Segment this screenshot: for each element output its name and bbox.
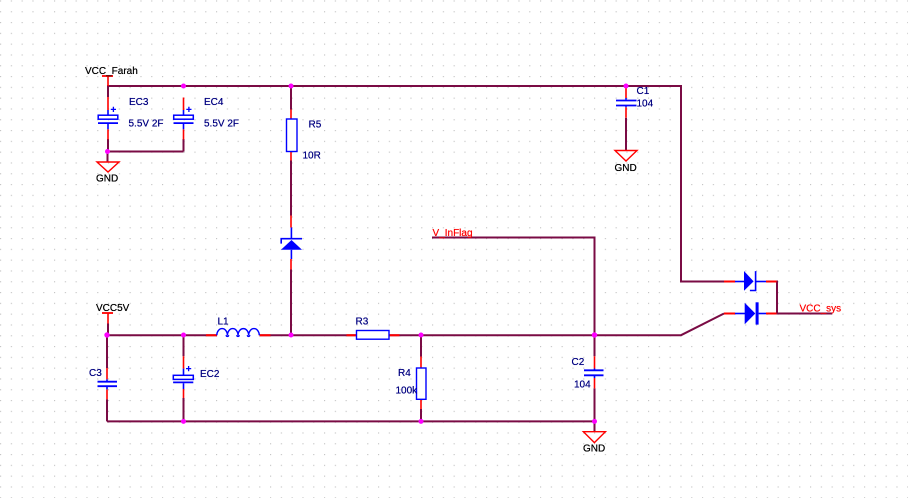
zener diode D1	[281, 228, 302, 260]
wire: EC2 column segments	[183, 335, 185, 421]
pin: zener D1 pins	[290, 216, 292, 270]
svg-text:5.5V 2F: 5.5V 2F	[204, 119, 239, 130]
ground symbol (C2)	[583, 432, 605, 455]
wire: middle net from L1 right to diagonal into bottom diode	[260, 314, 725, 336]
wire: V_InFlag net horizontal and down to middle net	[432, 238, 595, 357]
wire: C2 column segments and GND stub	[594, 388, 596, 431]
pin: L1 pins	[206, 334, 271, 336]
pin: EC2 pins	[183, 356, 185, 398]
junction (183.5,421) EC2 bottom	[181, 419, 186, 424]
svg-text:10R: 10R	[303, 151, 321, 162]
svg-text:104: 104	[574, 380, 591, 391]
power port VCC5V	[96, 303, 130, 314]
pin: top diode D2 pins	[724, 281, 777, 283]
pin: C2 pins	[594, 356, 596, 388]
inductor L1	[217, 329, 259, 337]
svg-text:C3: C3	[89, 368, 102, 379]
ground symbol (C1)	[615, 151, 638, 175]
pin: C1 pins	[625, 86, 627, 118]
capacitor C1	[616, 98, 637, 107]
svg-text:VCC_Farah: VCC_Farah	[85, 66, 138, 77]
power port VCC_Farah	[85, 66, 138, 77]
svg-text:104: 104	[637, 99, 654, 110]
junction (421,421) R4 bottom	[419, 419, 424, 424]
junction (183.5,86) EC4 top	[181, 84, 186, 89]
pin: R4 pins	[420, 357, 422, 410]
pin: C3 pins	[106, 368, 108, 399]
wire: C1 bottom to GND	[625, 118, 627, 151]
wire: VCC5V stub down to middle net	[107, 324, 109, 336]
svg-text:R4: R4	[398, 368, 411, 379]
svg-text:V_InFlag: V_InFlag	[433, 228, 473, 239]
wire: top diode output corner down to VCC_sys row	[776, 282, 779, 314]
ground symbol (EC3/EC4)	[96, 162, 119, 185]
capacitor EC3	[98, 107, 118, 130]
pin: EC4 pins	[183, 98, 185, 140]
wire: top net from VCC_Farah corner right to top-right corner, down to top diode row	[108, 86, 724, 282]
diode D2 (top right zener)	[735, 271, 766, 291]
capacitor EC4	[174, 107, 194, 130]
svg-text:GND: GND	[615, 163, 637, 174]
pin: VCC5V port pin	[107, 313, 109, 324]
diode D3 (bottom right)	[735, 302, 766, 324]
junction (107,334.5) VCC5V node	[104, 332, 109, 337]
junction (594.5,334.5) V_InFlag/C2 node	[592, 332, 597, 337]
svg-text:VCC5V: VCC5V	[96, 303, 130, 314]
resistor R4	[417, 368, 427, 399]
svg-text:EC4: EC4	[204, 97, 224, 108]
wire: VCC_sys net stub	[776, 313, 832, 315]
junction (107.5,151) EC3 bottom	[105, 149, 110, 154]
svg-text:R3: R3	[356, 317, 369, 328]
pin: R5 pins	[290, 110, 292, 161]
wire: R4 column segments	[420, 335, 422, 421]
pin: bottom diode D3 pins	[724, 313, 777, 315]
svg-text:GND: GND	[583, 444, 605, 455]
junction (626,86) C1 top	[624, 84, 629, 89]
wire: R5/zener column segments	[290, 86, 292, 335]
svg-text:C1: C1	[637, 86, 650, 97]
wire: C3 column segments	[106, 335, 108, 421]
svg-text:5.5V 2F: 5.5V 2F	[129, 119, 164, 130]
junction (594.5,421) C2 bottom/GND	[592, 419, 597, 424]
pin: R3 pins	[347, 334, 400, 336]
pin: VCC_Farah port pin	[107, 76, 109, 86]
svg-text:L1: L1	[218, 317, 230, 328]
wire: EC3 bottom to EC4 bottom link and GND stub	[108, 139, 184, 162]
svg-text:GND: GND	[96, 174, 118, 185]
capacitor EC2	[173, 366, 193, 389]
wire: bottom net horizontal	[107, 420, 595, 422]
junction (291,334.5) L1/zener node	[289, 333, 294, 338]
svg-text:C2: C2	[572, 357, 585, 368]
svg-text:100k: 100k	[396, 385, 419, 396]
junction (291,86) R5 top	[289, 84, 294, 89]
svg-text:VCC_sys: VCC_sys	[800, 304, 842, 315]
pin: EC3 pins	[107, 97, 109, 140]
svg-text:EC3: EC3	[129, 97, 149, 108]
svg-text:EC2: EC2	[200, 369, 220, 380]
junction (421,334.5) R3/R4 node	[419, 333, 424, 338]
capacitor C2	[584, 369, 604, 379]
resistor R3	[357, 331, 390, 340]
junction (183.5,334.5) EC2 top	[181, 333, 186, 338]
svg-text:R5: R5	[309, 120, 322, 131]
wire: middle net left segment to L1	[108, 334, 217, 336]
resistor R5	[287, 119, 298, 152]
capacitor C3	[98, 379, 118, 389]
